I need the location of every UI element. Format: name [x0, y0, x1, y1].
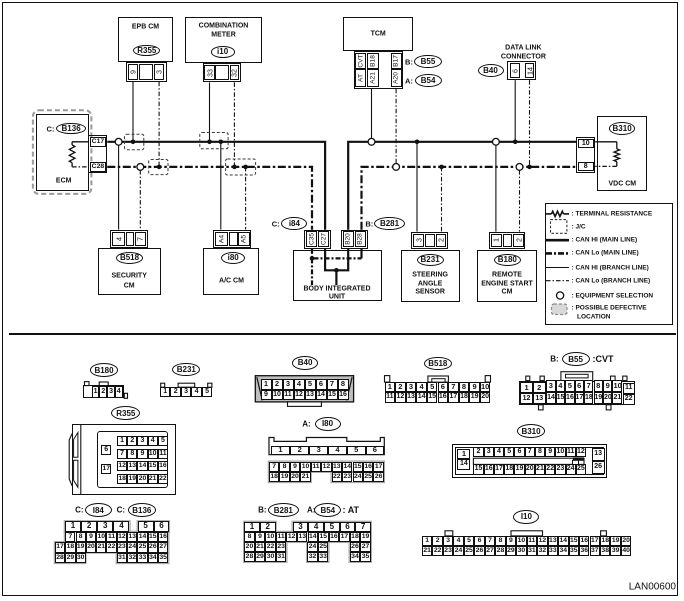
label VDC CM [608, 181, 636, 188]
halo B281 row3 b [307, 541, 329, 552]
pin A20 [393, 72, 400, 84]
wire branch EPB pin9 [132, 82, 134, 142]
junction dot EPB9 [131, 140, 136, 145]
oval label B518 (connector view) [424, 357, 452, 371]
pin A4 [218, 235, 225, 243]
connector R355 pins [126, 62, 167, 82]
label B: (B281 connector view) [258, 506, 266, 515]
wire branch DLC pin6 [514, 80, 516, 142]
legend box [545, 203, 674, 325]
halo B281 row4 b [307, 551, 329, 562]
oval label B231 (connector view) [172, 363, 200, 377]
connector B55 pins 1-2 [520, 382, 533, 393]
junction dot steering3 [415, 140, 420, 145]
pin 32 [230, 69, 239, 77]
halo I84 row4 left [54, 552, 86, 563]
pin 3 (steering) [414, 238, 423, 242]
connector B310 pins 13/26 block [592, 448, 605, 461]
connector R355 pins 1-5 [117, 436, 127, 446]
connector B281/B54 pins 24-25 [307, 542, 318, 552]
wire pin10 to resistor [595, 141, 617, 143]
connector i84 pins (C35 C27) [304, 230, 331, 249]
connector B310 inner frame [455, 447, 604, 476]
box COMBINATION METER [185, 17, 262, 62]
connector B281/B54 pins 26-27 [350, 542, 361, 552]
pin B20 [345, 234, 352, 246]
oval label B40 (connector view) [292, 356, 318, 370]
connector B55 pins 14-21 [546, 392, 555, 404]
box BODY INTEGRATED UNIT [293, 250, 382, 301]
label ECM [56, 178, 72, 185]
oval label R355 [133, 45, 160, 56]
pin 10 [578, 139, 594, 148]
oval label B54 (connector view) [314, 503, 341, 517]
pin 3 [155, 70, 164, 74]
junction dot acA4 [219, 140, 224, 145]
legend label CAN HI branch [572, 264, 649, 271]
connector I80 pins 7-17 [269, 462, 279, 472]
connector TCM pins [354, 51, 404, 89]
connector B310 pin 1 [457, 449, 470, 460]
equipment selection circle TCM A20 [393, 164, 400, 171]
wire BIU internal Lo stub down [311, 258, 313, 285]
halo B281 row3 a [244, 541, 287, 552]
label C: [47, 124, 55, 133]
connector a/c pins [213, 230, 251, 249]
oval label B518 (security) [116, 252, 143, 264]
connector B55 pins 3-10 [546, 380, 555, 392]
connector I84/B136 header pins 1-4 [65, 521, 81, 532]
connector B40 pins [507, 61, 536, 80]
J/C box comb/ac HI [200, 133, 228, 149]
junction dot DLC6 [513, 140, 518, 145]
label C: (I84) [75, 506, 83, 515]
connector B55 body [519, 381, 635, 405]
halo I84 row2 [64, 531, 168, 542]
connector I84/B136 header pins 5-6 [138, 521, 154, 532]
connector B180 body [83, 385, 125, 398]
label B: [405, 57, 413, 66]
wire BIU internal CAN Lo link [312, 249, 362, 259]
oval label B180 (remote) [494, 254, 521, 266]
connector I10 pins 21-40 [422, 546, 432, 556]
equipment selection circle remote2 [516, 164, 523, 171]
legend J/C symbol [551, 220, 567, 234]
connector remote pins [489, 232, 525, 249]
connector B281/B54 header pins 1-2 [244, 522, 260, 532]
legend CAN Lo branch line symbol [546, 280, 569, 282]
halo I80 row3 right [331, 471, 384, 482]
wire CAN Lo main line right [362, 167, 577, 230]
oval label B55 [414, 55, 441, 68]
junction dot BIU HI [334, 268, 339, 273]
label LAN00600 [629, 582, 676, 593]
oval label B55 (connector view) [562, 352, 590, 366]
wire resistor to C17 [72, 141, 89, 143]
wire branch a/c pin A5 [245, 167, 247, 230]
oval label B231 (steering) [417, 254, 444, 266]
legend label CAN Lo branch [572, 277, 651, 284]
wire branch DLC pin14 [529, 80, 531, 167]
connector B281/B54 header pins 3-7 [293, 522, 309, 532]
connector i10 pins [203, 63, 241, 83]
oval label B180 (connector view) [90, 363, 118, 377]
pin 4 [114, 237, 123, 241]
connector B310 pins 2-12 [473, 447, 483, 458]
oval label i10 [211, 46, 235, 57]
legend CAN Lo main line symbol [546, 252, 569, 255]
legend label CAN HI main [572, 237, 638, 244]
pin A21 [370, 72, 377, 84]
wire branch steering pin3 [416, 142, 418, 232]
oval label B136 [56, 123, 86, 135]
wire BIU internal CAN HI U-link [325, 249, 348, 270]
pin 2 (steering) [436, 238, 445, 242]
connector B180 pins 1-4 [92, 386, 100, 397]
connector R355 pin 17 [101, 464, 111, 474]
junction dot comb32 [232, 165, 237, 170]
oval label B281 [374, 217, 405, 230]
wire CAN HI main line left [107, 142, 325, 230]
oval label B310 (connector view) [517, 424, 545, 438]
pin 6 [511, 69, 520, 73]
junction dot comb33 [207, 140, 212, 145]
oval label B54 [415, 74, 442, 87]
J/C box EPB Lo [149, 160, 168, 175]
oval label B40 [478, 64, 504, 77]
label :CVT [593, 354, 614, 364]
junction dot EPB3 [157, 165, 162, 170]
connector I84/B136 pins 7-16 [65, 532, 75, 542]
legend label J/C [572, 223, 586, 230]
pin A5 [241, 235, 248, 243]
halo I84 row4 right [116, 552, 169, 563]
connector I80 header pins 1-6 [271, 446, 290, 454]
box REMOTE ENGINE START CM [477, 250, 538, 302]
junction dot steering2 [439, 165, 444, 170]
halo I84 row3 [54, 542, 168, 553]
wire CAN HI main line right [348, 142, 576, 230]
junction dot acA5 [243, 165, 248, 170]
label C: (B136) [117, 506, 125, 515]
pin C27 [320, 233, 327, 245]
oval label I80 (connector view) [315, 417, 341, 431]
pin 33 [205, 69, 214, 77]
pin B18 [370, 55, 377, 67]
legend CAN HI main line symbol [546, 239, 569, 242]
connector B231 pins 1-5 [160, 387, 170, 397]
connector I84/B136 pins 17-27 [55, 542, 65, 552]
connector B310 pin 14 [457, 459, 470, 470]
wire branch security pin7 [139, 170, 141, 229]
legend equipment selection symbol [557, 292, 564, 299]
pin 2 (remote) [514, 238, 523, 242]
wire CAN Lo main line left [107, 167, 312, 230]
wire branch a/c pin A4 [220, 142, 222, 230]
pin C17 [90, 137, 107, 147]
connector B281/B54 pins 32-33 [307, 552, 318, 562]
box A/C CM [203, 248, 260, 295]
legend label possible defective location [572, 305, 647, 312]
pin 7 [136, 237, 145, 241]
pin CVT [357, 55, 364, 68]
wire branch security pin4 [118, 145, 120, 230]
wire branch remote pin2 [519, 170, 521, 232]
legend label CAN Lo main [572, 250, 639, 257]
wire branch comb meter pin32 [233, 82, 235, 166]
box STEERING ANGLE SENSOR [401, 250, 460, 302]
connector R355 inner frame [97, 431, 169, 488]
box VDC CM [597, 116, 647, 191]
legend label equipment selection [572, 292, 654, 299]
wire BIU internal stub down [335, 270, 337, 285]
halo B281 row2 [244, 531, 372, 542]
pin C28 [90, 162, 107, 172]
connector B281/B54 pins 34-35 [350, 552, 361, 562]
halo B281 row4 a [244, 551, 287, 562]
oval label i80 (a/c) [221, 252, 245, 264]
connector B518 pins 1-10 [385, 382, 396, 392]
halo I80 row3 left [268, 471, 311, 482]
connector B40 pins 1-8 [261, 379, 272, 390]
box SECURITY CM [98, 248, 161, 295]
label A: (I80) [302, 419, 310, 428]
halo B281 header right [292, 521, 371, 532]
halo I84 header right [137, 521, 169, 533]
label A: (B54) [307, 506, 315, 515]
connector I10 pins 1-20 [422, 536, 432, 546]
junction dot BIU Lo [310, 256, 315, 261]
legend CAN HI branch line symbol [546, 267, 569, 269]
connector R355 body [72, 424, 176, 495]
legend terminal resistance symbol [546, 213, 552, 215]
wire branch TCM pin A21 [371, 89, 373, 139]
legend possible defective location symbol [552, 304, 568, 315]
connector C17/C28 box [88, 135, 107, 174]
box ECM [36, 114, 89, 191]
connector B231 body [160, 387, 212, 397]
wire resistor to pin8 [616, 162, 618, 167]
connector VDC pins box [576, 137, 595, 172]
oval label I84 (connector view) [85, 503, 112, 517]
label B: (B55) [550, 355, 558, 364]
equipment selection circle security7 [137, 164, 144, 171]
connector security pins [110, 230, 149, 249]
connector B281 pins (B20 B28) [341, 230, 368, 249]
wire resistor to C28 [71, 163, 73, 167]
wire branch TCM pin A20 [395, 89, 397, 164]
pin 14 [525, 67, 534, 75]
equipment selection circle security4 [115, 138, 122, 145]
pin C35 [308, 233, 315, 245]
oval label B310 [609, 122, 635, 135]
connector B518 pins 11-20 [385, 392, 396, 402]
junction dot DLC14 [527, 165, 532, 170]
label A: [405, 76, 413, 85]
connector B281/B54 pins 20-23 [244, 542, 255, 552]
connector R355 pins 18-22 [117, 474, 127, 484]
connector steering pins [411, 232, 447, 249]
J/C box comb/ac Lo [226, 159, 256, 175]
oval label i84 [281, 217, 307, 230]
halo I84 header left [64, 521, 130, 533]
pin AT [357, 74, 364, 82]
separator line [9, 333, 676, 335]
connector R355 pin 6 [101, 445, 111, 455]
pin B28 [357, 234, 364, 246]
pin 1 (remote) [492, 238, 501, 242]
connector I84/B136 pins 31-35 [117, 553, 127, 563]
connector R355 pins 12-16 [117, 461, 127, 471]
wire branch steering pin2 [441, 167, 443, 232]
equipment selection circle remote1 [493, 138, 500, 145]
oval label B136 (connector view) [128, 503, 156, 517]
equipment selection circle TCM A21 [368, 138, 375, 145]
connector I84/B136 pins 28-30 [55, 553, 65, 563]
connector B55 pins 12-13 [520, 393, 533, 404]
halo B281 header left [244, 521, 276, 532]
label : AT [343, 505, 360, 515]
connector B55 pin 22 [623, 394, 635, 405]
oval label B281 (connector view) [268, 503, 299, 517]
label C: (i84) [272, 219, 280, 228]
box TCM [343, 17, 413, 51]
box EPB CM [118, 17, 173, 61]
legend label terminal resistance [572, 210, 653, 217]
label DATA LINK CONNECTOR [505, 44, 541, 51]
connector I80 pins 22-26 [332, 472, 342, 482]
halo B281 row4 c [349, 551, 371, 562]
connector B310 outer [452, 444, 607, 478]
label B: (B281) [365, 219, 373, 228]
connector R355 pins 7-11 [117, 449, 127, 459]
wire branch remote pin1 [495, 145, 497, 232]
connector B40 pins 9-16 [261, 390, 272, 400]
wire branch comb meter pin33 [209, 82, 211, 141]
pin 9 [129, 70, 138, 74]
connector I80 pins 18-21 [269, 472, 279, 482]
oval label R355 (connector view) [111, 406, 140, 420]
wire branch EPB pin3 [158, 82, 160, 167]
halo B281 row3 c [349, 541, 371, 552]
J/C box EPB HI [125, 134, 144, 150]
pin 8 [578, 162, 594, 171]
connector B55 pin 11 [623, 383, 635, 394]
connector B281/B54 pins 28-31 [244, 552, 255, 562]
pin B17 [393, 55, 400, 67]
halo I80 row2 [268, 461, 384, 472]
oval label I10 (connector view) [513, 510, 539, 524]
connector B310 pins 15-25 [473, 464, 483, 475]
connector B281/B54 pins 8-19 [244, 532, 255, 542]
